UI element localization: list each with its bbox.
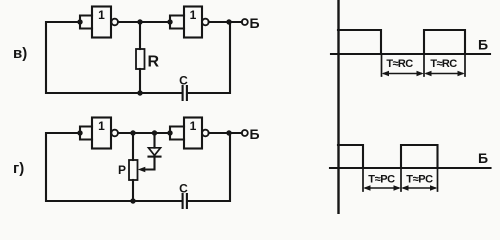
svg-text:1: 1 [190,119,197,133]
output bubble DD2.2 (г) [202,130,209,137]
diode VD cathode bar (г) [149,156,161,158]
wire gate1 output to gate2 input (в) [118,21,170,23]
capacitor C (в) [183,86,187,100]
svg-text:C: C [179,74,188,88]
wire P bottom lead (г) [132,180,134,201]
svg-text:1: 1 [98,8,105,22]
waveform pulse 2 (bottom diagram) [401,145,438,168]
terminal circle Б (г) [242,130,248,136]
potentiometer P (г) [129,160,138,180]
capacitor C (г) [183,194,187,208]
svg-text:Б: Б [250,126,260,142]
junction output node (г) [226,130,231,135]
logic gate DD1.2 (в) [184,7,202,38]
svg-text:T≈RC: T≈RC [386,58,413,70]
output bubble DD2.1 (г) [111,130,118,137]
waveform pulse 1 (bottom diagram) [338,145,363,168]
dimension arrow T1 (bottom diagram) [366,187,399,189]
junction gate2 input node (в) [167,19,172,24]
svg-text:Б: Б [478,150,488,166]
svg-text:C: C [179,182,188,196]
gate DD1.1 input bracket (в) [80,16,92,29]
svg-text:Б: Б [250,15,260,31]
svg-text:Р: Р [118,163,126,177]
wire R bottom lead (в) [139,69,141,93]
baseline Б (top diagram) [331,53,490,55]
wire diode cathode to wiper (г) [144,157,155,170]
terminal circle Б (в) [242,19,248,25]
svg-text:R: R [148,54,160,71]
wire feedback left rail (в) [46,22,139,93]
junction input node (г) [77,130,82,135]
junction output node (в) [226,19,231,24]
gate DD2.1 input bracket (г) [80,127,92,140]
dimension arrow T1 (top diagram) [384,73,421,75]
output bubble DD1.2 (в) [202,19,209,26]
gate DD1.2 input bracket (в) [170,16,184,29]
svg-text:г): г) [13,160,24,177]
svg-text:1: 1 [190,8,197,22]
junction P-bottom node (г) [130,198,135,203]
junction R-bottom node (в) [137,90,142,95]
junction gate2 input node (г) [167,130,172,135]
junction diode node (г) [152,130,157,135]
wire diode anode lead (г) [153,133,155,148]
svg-text:T≈PC: T≈PC [406,174,433,186]
junction R-top node (в) [137,19,142,24]
dimension arrow T2 (top diagram) [427,73,463,75]
wire capacitor to right rail (г) [188,133,230,201]
resistor R (в) [136,49,145,69]
wire P top lead (г) [132,133,134,160]
waveform pulse 2 (top diagram) [424,30,465,54]
logic gate DD2.1 (г) [92,118,111,149]
dimension extension lines (bottom diagram) [363,168,438,191]
junction input node (в) [77,19,82,24]
output bubble DD1.1 (в) [111,19,118,26]
diode VD (г) [149,148,161,156]
svg-text:1: 1 [98,119,105,133]
junction P-top node (г) [130,130,135,135]
dimension extension lines (top diagram) [382,54,466,76]
wire gate2 output to terminal (г) [209,132,242,134]
svg-text:T≈PC: T≈PC [368,174,395,186]
wire bottom rail to capacitor (в) [140,92,181,94]
gate DD2.2 input bracket (г) [170,127,184,140]
potentiometer wiper arrow (г) [138,167,146,173]
logic gate DD1.1 (в) [92,7,111,38]
wire capacitor to right rail (в) [188,22,230,93]
svg-text:Б: Б [478,37,488,53]
wire feedback left rail (г) [46,133,132,201]
waveform pulse 1 (top diagram) [338,30,381,54]
baseline Б (bottom diagram) [330,167,491,169]
wire R top lead (в) [139,22,141,49]
wire bottom rail to capacitor (г) [133,200,181,202]
svg-text:в): в) [13,45,27,62]
vertical time axis (shared) [337,0,339,214]
logic gate DD2.2 (г) [184,118,202,149]
svg-text:T≈RC: T≈RC [430,58,457,70]
dimension arrow T2 (bottom diagram) [404,187,436,189]
wire gate2 output to terminal (в) [209,21,242,23]
wire gate1 output to gate2 input (г) [118,132,170,134]
